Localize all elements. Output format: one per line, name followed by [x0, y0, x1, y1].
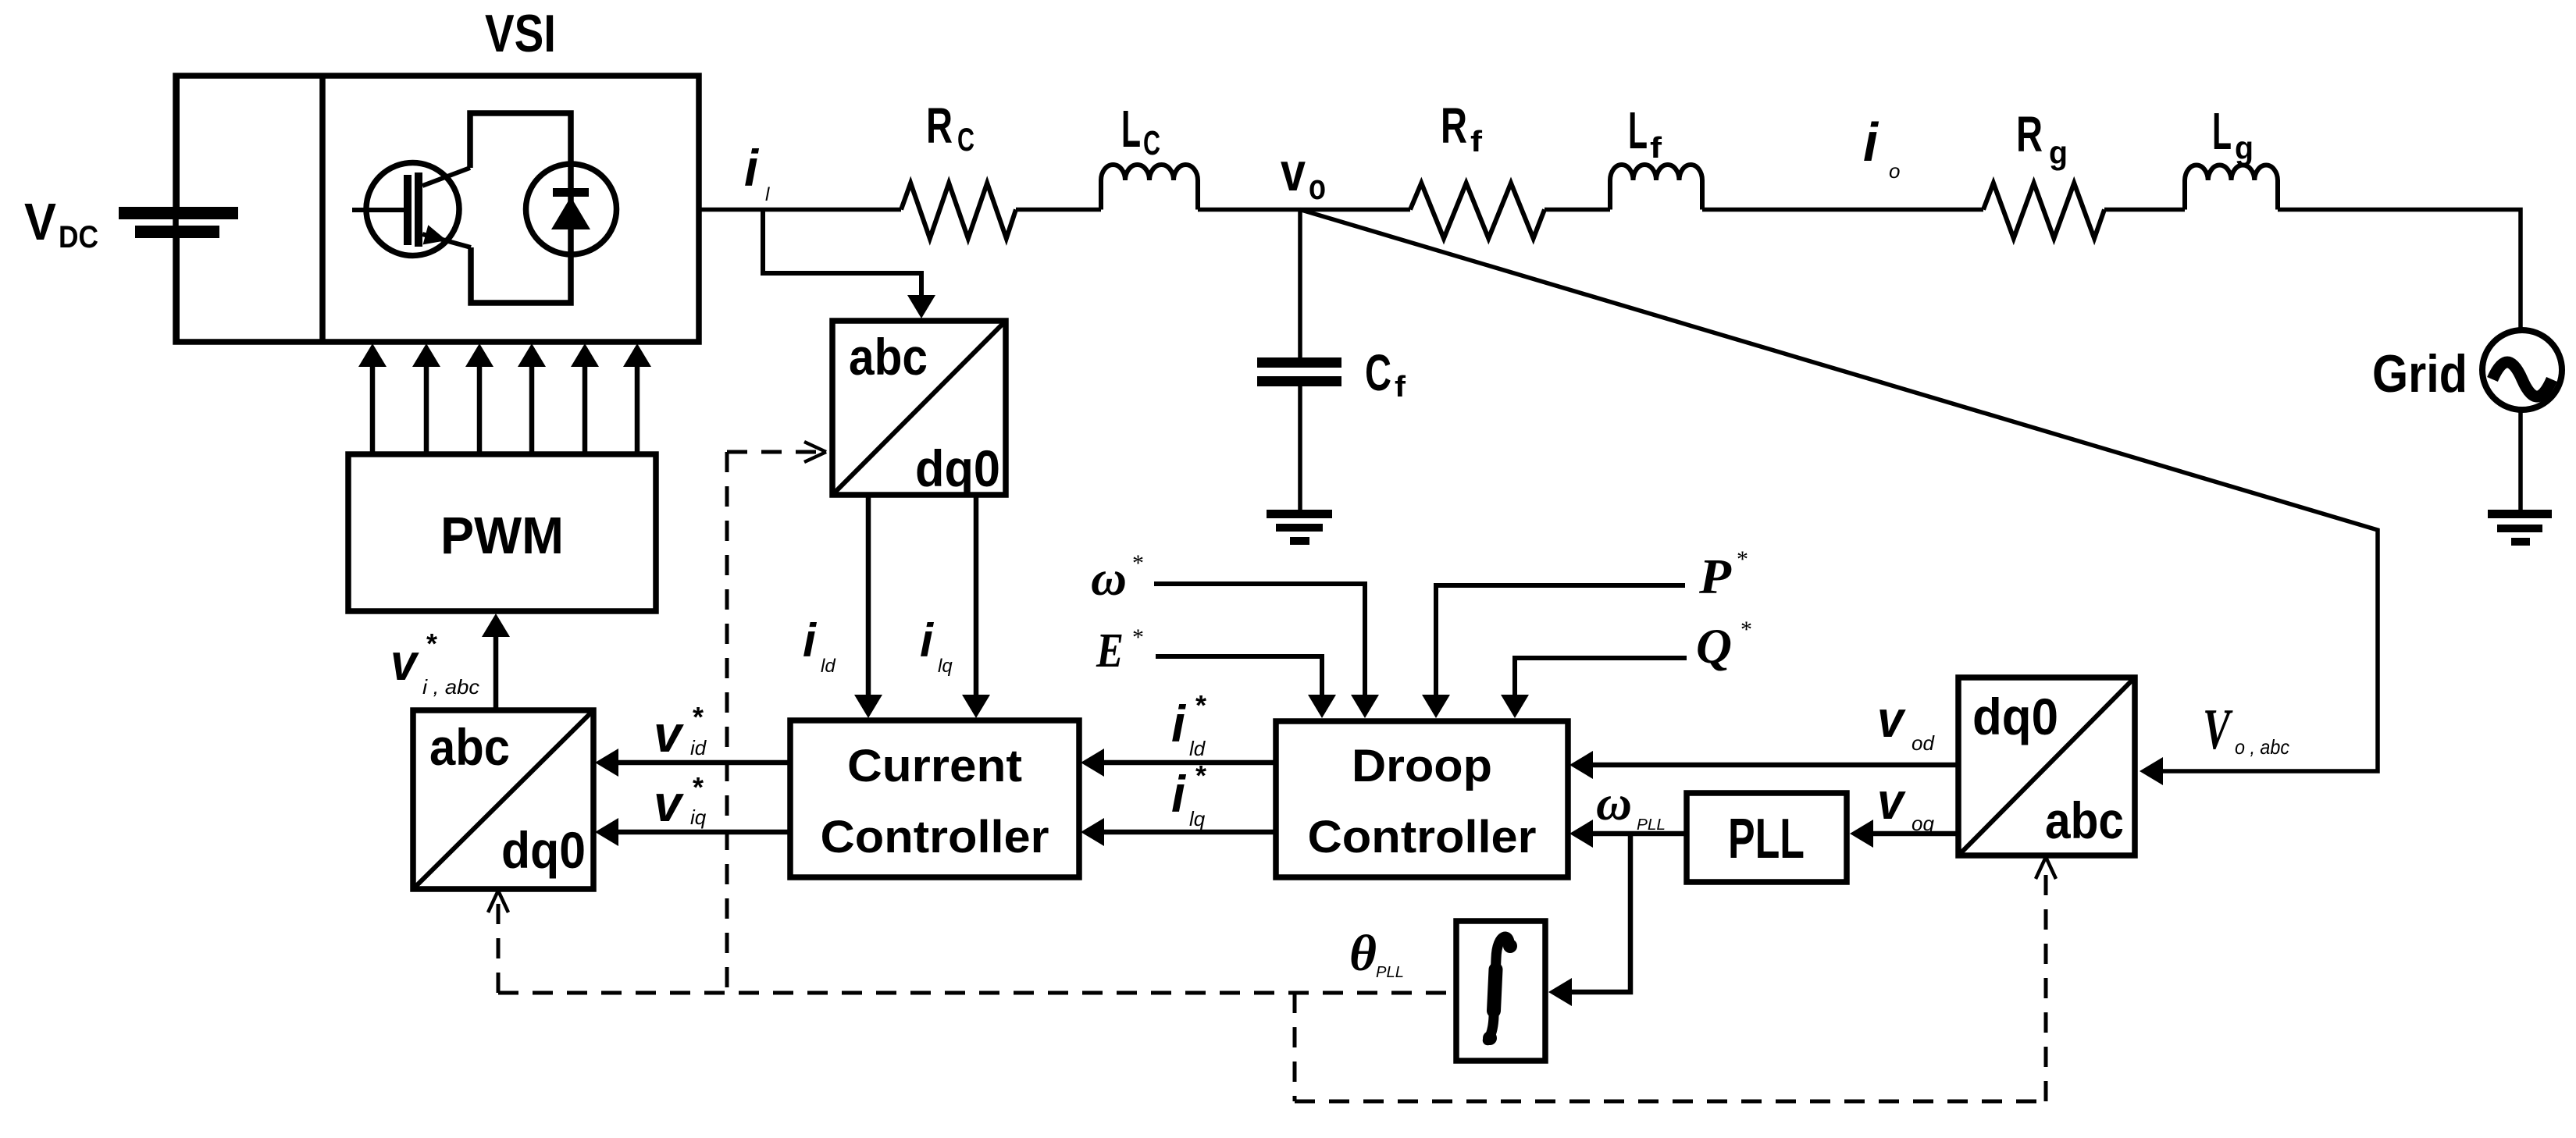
wire i*lq [1081, 818, 1276, 846]
label vo [1281, 141, 1326, 207]
svg-text:*: * [693, 771, 704, 803]
svg-text:PLL: PLL [1637, 816, 1666, 834]
svg-text:V: V [24, 193, 56, 251]
svg-text:*: * [1737, 546, 1748, 572]
svg-text:C: C [1143, 124, 1160, 162]
label v*id [654, 701, 707, 763]
svg-text:i: i [1863, 112, 1879, 172]
wire [2518, 410, 2523, 513]
wire P* input [1422, 585, 1685, 718]
svg-text:dq0: dq0 [915, 439, 1000, 497]
svg-text:*: * [693, 701, 704, 733]
label v*i,abc [390, 628, 479, 699]
wire vo down [1298, 210, 1302, 360]
PLL box [1687, 793, 1847, 882]
svg-text:v: v [654, 705, 684, 763]
svg-text:od: od [1912, 731, 1935, 755]
wire w* input [1154, 584, 1379, 718]
svg-text:P: P [1698, 549, 1732, 604]
wire ild [854, 495, 882, 718]
Droop Controller box [1276, 721, 1568, 877]
svg-text:L: L [2212, 102, 2232, 161]
svg-text:C: C [1365, 343, 1391, 401]
label Q* [1696, 617, 1752, 674]
svg-text:f: f [1395, 371, 1406, 404]
wire to node vo [1198, 208, 1410, 212]
label Lg [2212, 102, 2254, 166]
label w* [1091, 550, 1144, 606]
Current Controller box [790, 720, 1079, 877]
IGBT Q1 [352, 163, 471, 256]
label Rf [1441, 98, 1482, 158]
dq0-abc block (voltage meas) [1958, 677, 2135, 855]
dashed theta bus [498, 991, 1456, 995]
svg-text:dq0: dq0 [1972, 688, 2058, 745]
label wPLL [1596, 775, 1666, 834]
svg-text:v: v [390, 633, 419, 691]
svg-text:R: R [2016, 106, 2043, 162]
label ild [803, 614, 836, 677]
label il [744, 139, 770, 205]
svg-text:L: L [1628, 101, 1648, 160]
dashed branch to current block [727, 442, 826, 993]
svg-text:ω: ω [1091, 550, 1127, 606]
svg-text:f: f [1650, 132, 1662, 165]
inductor Lf [1610, 165, 1702, 210]
svg-text:i: i [744, 139, 760, 197]
label E* [1096, 624, 1144, 677]
label LC [1121, 100, 1160, 162]
inductor Lg [2185, 165, 2278, 210]
label v*iq [654, 771, 707, 832]
diode D1 [526, 164, 617, 254]
svg-text:R: R [1441, 98, 1467, 154]
svg-text:lq: lq [938, 656, 953, 677]
svg-text:abc: abc [429, 718, 510, 776]
svg-text:ld: ld [821, 656, 836, 677]
wire E* input [1156, 656, 1336, 718]
label Grid [2372, 344, 2467, 404]
svg-text:l: l [765, 184, 770, 205]
wire vod [1569, 751, 1958, 779]
svg-text:dq0: dq0 [501, 821, 586, 879]
ground (grid) [2488, 510, 2552, 546]
svg-text:ld: ld [1189, 737, 1206, 760]
svg-text:L: L [1121, 100, 1141, 158]
label ilq [920, 614, 953, 677]
svg-text:i: i [920, 614, 934, 667]
svg-text:g: g [2235, 130, 2254, 166]
svg-text:E: E [1096, 624, 1124, 677]
label VSI [485, 4, 556, 63]
svg-text:Grid: Grid [2372, 344, 2467, 404]
svg-text:v: v [1281, 141, 1306, 202]
wire v*id [595, 749, 790, 777]
svg-text:o: o [1309, 167, 1326, 207]
wire ilq [962, 495, 990, 718]
wire VSI output [699, 208, 901, 212]
svg-text:i: i [1171, 695, 1187, 752]
wire Q* input [1501, 658, 1687, 718]
svg-text:o , abc: o , abc [2235, 735, 2289, 759]
integrator block [1456, 921, 1545, 1061]
svg-text:*: * [1195, 759, 1206, 791]
VSI box [176, 76, 699, 342]
svg-text:Droop: Droop [1352, 741, 1492, 791]
wire wPLL to integrator [1548, 834, 1630, 1006]
label Vo,abc [2203, 698, 2289, 762]
wire [1298, 386, 1302, 512]
gate drive arrows [358, 343, 651, 454]
svg-text:o: o [1889, 159, 1900, 183]
svg-text:V: V [2203, 698, 2233, 762]
svg-text:PWM: PWM [440, 507, 564, 565]
label VDC [24, 193, 98, 254]
svg-text:f: f [1470, 126, 1482, 158]
wire wPLL [1569, 820, 1687, 848]
label Lf [1628, 101, 1662, 165]
label Rg [2016, 106, 2068, 171]
label P* [1698, 546, 1748, 604]
label thetaPLL [1349, 925, 1404, 982]
svg-text:*: * [1132, 550, 1144, 576]
wire v*iq [595, 818, 790, 846]
label voq [1877, 772, 1934, 835]
svg-text:v: v [1877, 772, 1906, 830]
label vod [1877, 690, 1935, 755]
svg-text:abc: abc [2045, 791, 2124, 849]
inductor LC [1101, 165, 1198, 210]
svg-text:abc: abc [849, 328, 928, 386]
battery VDC [119, 76, 238, 342]
wire Vo,abc feedback [1300, 210, 2378, 786]
wire [1016, 208, 1101, 212]
wire [1545, 208, 1610, 212]
ground (Cf) [1267, 510, 1332, 545]
svg-text:i: i [803, 614, 817, 667]
wire [1702, 208, 1983, 212]
resistor Rf [1410, 183, 1545, 239]
svg-text:Current: Current [847, 741, 1022, 791]
svg-text:*: * [1132, 624, 1144, 650]
dashed branch to voltage block [2036, 857, 2056, 1101]
svg-text:v: v [1877, 690, 1906, 748]
svg-text:R: R [926, 98, 953, 154]
svg-text:DC: DC [59, 220, 98, 254]
AC source Grid [2482, 330, 2562, 410]
label Cf [1365, 343, 1406, 404]
label i*lq [1171, 759, 1206, 830]
label io [1863, 112, 1900, 183]
capacitor Cf [1257, 357, 1341, 386]
svg-text:ω: ω [1596, 775, 1632, 830]
svg-text:g: g [2049, 134, 2068, 171]
svg-text:VSI: VSI [485, 4, 556, 63]
resistor RC [901, 183, 1016, 239]
svg-text:θ: θ [1349, 925, 1377, 982]
svg-text:*: * [1740, 617, 1752, 642]
svg-text:iq: iq [690, 805, 707, 829]
svg-text:Q: Q [1696, 618, 1732, 674]
freewheel loop wire [470, 113, 571, 303]
dashed branch to command block [488, 891, 508, 993]
svg-text:PLL: PLL [1728, 808, 1805, 870]
svg-text:oq: oq [1912, 812, 1934, 835]
wire i*ld [1081, 749, 1276, 777]
wire voq [1850, 820, 1958, 848]
resistor Rg [1983, 183, 2104, 239]
svg-text:PLL: PLL [1376, 964, 1404, 981]
svg-text:Controller: Controller [1308, 812, 1537, 862]
label RC [926, 98, 974, 158]
label i*ld [1171, 689, 1206, 760]
dashed bottom bus [1295, 1100, 2046, 1104]
wire v*i,abc [482, 613, 510, 710]
svg-text:v: v [654, 774, 684, 832]
wire il branch [763, 210, 935, 319]
svg-text:*: * [426, 628, 437, 660]
wire [2104, 208, 2185, 212]
svg-text:i , abc: i , abc [422, 675, 479, 699]
svg-text:C: C [957, 121, 974, 158]
wire to grid [2278, 210, 2521, 329]
PWM box [348, 454, 656, 611]
svg-text:Controller: Controller [821, 812, 1049, 862]
svg-text:lq: lq [1189, 807, 1206, 830]
abc-dq0 block (current meas) [832, 321, 1006, 497]
dashed branch down [1293, 993, 1297, 1101]
abc-dq0 block (command) [413, 710, 593, 889]
svg-text:*: * [1195, 689, 1206, 721]
svg-text:id: id [690, 736, 707, 759]
svg-text:i: i [1171, 765, 1187, 823]
